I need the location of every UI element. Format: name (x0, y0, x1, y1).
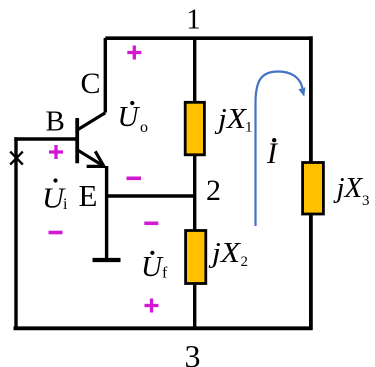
polarity - (Uf top, magenta) (144, 222, 158, 226)
svg-text:jX: jX (208, 237, 242, 269)
ground (93, 258, 121, 262)
svg-text:2: 2 (206, 174, 221, 207)
wire: top bus from collector to right branch (node 1 net) (105, 36, 311, 40)
wire: emitter vertical lead (105, 166, 108, 260)
polarity - (Ui bottom, magenta) (49, 231, 63, 235)
reactance jX3 (box) (303, 163, 324, 215)
svg-text:jX: jX (214, 103, 248, 135)
wire: collector vertical lead (104, 38, 107, 113)
label jX1 (214, 103, 253, 136)
polarity + (Uo top, magenta) (127, 46, 141, 60)
wire: node 2 horizontal to emitter branch (107, 194, 195, 198)
svg-text:3: 3 (362, 193, 370, 209)
svg-text:2: 2 (241, 254, 249, 270)
svg-text:B: B (46, 106, 65, 138)
current I label (I dot) (266, 137, 279, 170)
wire: left vertical branch (input side) (14, 137, 17, 328)
svg-text:i: i (63, 196, 68, 213)
transistor (NPN, base bar + collector + emitter arrow) (77, 113, 105, 167)
svg-text:o: o (140, 119, 148, 136)
svg-text:1: 1 (245, 120, 253, 136)
svg-text:3: 3 (185, 338, 201, 367)
label jX3 (333, 172, 370, 209)
voltage label Uf (U dot f) (141, 251, 168, 283)
voltage label Ui (U dot i) (42, 178, 68, 214)
label jX2 (208, 237, 248, 270)
svg-text:E: E (79, 178, 98, 213)
break mark x on input wire (10, 152, 23, 165)
svg-text:U: U (141, 251, 164, 283)
polarity + (Uf bottom, magenta) (145, 299, 159, 313)
wire: bottom bus (node 3 net) (14, 326, 313, 330)
wire: right vertical branch (through jX3) (309, 36, 313, 330)
reactance jX2 (box) (186, 231, 206, 284)
svg-text:f: f (162, 265, 168, 282)
reactance jX1 (box) (185, 102, 204, 155)
current I loop arrow (blue) (256, 72, 306, 227)
svg-text:1: 1 (186, 4, 201, 36)
wire: middle vertical branch node1-node2-node3 (through jX1, jX2) (193, 38, 196, 328)
svg-text:jX: jX (333, 172, 364, 204)
polarity - (Uo bottom, magenta) (127, 177, 142, 181)
svg-text:C: C (81, 67, 101, 100)
polarity + (Ui top, magenta) (49, 145, 63, 159)
svg-text:U: U (118, 101, 141, 133)
wire: base lead (14, 137, 76, 140)
voltage label Uo (U dot o) (118, 101, 149, 136)
